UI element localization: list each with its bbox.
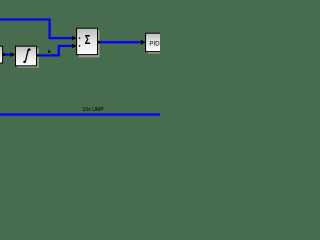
arrowhead into sum input 2 bbox=[72, 44, 77, 49]
integrator output port nub bbox=[37, 54, 39, 57]
sum input port marks bbox=[79, 37, 81, 39]
arrowhead into sum input 1 bbox=[72, 36, 77, 41]
sum block U2 bbox=[77, 28, 98, 54]
wire from source block to integrator bbox=[5, 54, 11, 56]
background bbox=[0, 0, 160, 120]
bottom horizontal wire across full width bbox=[0, 114, 160, 116]
wire from integrator to sum block input 2 bbox=[39, 46, 73, 56]
annotation dot bbox=[48, 50, 50, 52]
output port nub of source block bbox=[3, 53, 5, 56]
source block (cut off at left edge) bbox=[0, 46, 3, 63]
wire from top-left input to sum block input 1 bbox=[0, 20, 73, 39]
sum output port nub bbox=[98, 41, 101, 44]
integrator block U1 bbox=[16, 46, 37, 66]
svg-text:PID: PID bbox=[149, 40, 160, 47]
wire halos bbox=[0, 20, 160, 115]
wire from sum block to PID block bbox=[100, 41, 141, 43]
sum block shadow bbox=[79, 30, 100, 57]
integrator block shadow bbox=[17, 48, 38, 67]
PID block shadow bbox=[148, 35, 165, 53]
arrowhead into PID block bbox=[141, 40, 146, 45]
svg-text:10x UMP: 10x UMP bbox=[82, 107, 104, 113]
integral glyph bbox=[24, 49, 30, 62]
svg-text:Σ: Σ bbox=[85, 34, 91, 48]
arrowhead into integrator input bbox=[11, 52, 16, 57]
PID block U3 bbox=[146, 33, 165, 51]
